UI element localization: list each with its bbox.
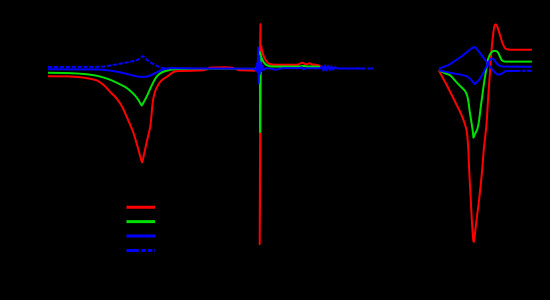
legend blue solid line sample	[127, 235, 156, 238]
left panel green curve (medium absorption dip, baseline, spike and right tail)	[48, 52, 320, 132]
right panel blue up-bump curve (triangle peak, crossing down into dip, rising to dashed level)	[439, 47, 521, 75]
right panel red curve (deep narrow dip then overshoot peak settling high)	[439, 24, 532, 241]
legend green solid line sample	[127, 220, 156, 223]
legend red solid line sample	[127, 206, 156, 209]
right panel blue down-bump curve (dip then overshoot settling to solid line)	[439, 58, 532, 84]
legend blue dashed line sample	[127, 249, 156, 252]
left panel blue solid curve (lower lens dip, baseline through spike knot and wiggles)	[48, 48, 360, 83]
left panel blue dashed tail after wiggles	[360, 68, 375, 70]
left panel red curve (broad absorption dip, baseline crossings, sharp spike and right tail bumps)	[48, 24, 322, 244]
right panel blue dashed end segments of lower line	[522, 70, 532, 72]
left panel blue dashed curve (flat baseline rising to upper lens peak)	[48, 56, 169, 68]
right panel green curve (medium dip then small overshoot peak)	[439, 51, 532, 138]
